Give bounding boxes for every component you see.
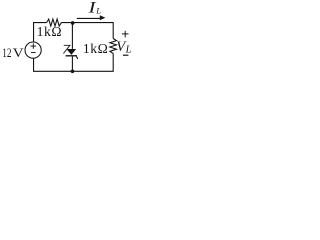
junction node dot top (71, 21, 75, 25)
wire top-left (corner at 34,22.6) (34, 23, 47, 43)
minus sign inside source (31, 52, 36, 54)
svg-text:I: I (87, 0, 96, 17)
plus sign of VL (122, 31, 129, 38)
current arrow IL head (100, 15, 106, 20)
svg-text:1kΩ: 1kΩ (83, 41, 109, 56)
voltage source VS 12V circle (25, 42, 41, 58)
zener diode D1 cathode bar (66, 55, 77, 56)
current arrow IL shaft (77, 17, 102, 19)
plus sign inside source (31, 43, 37, 48)
zener diode D1 (triangle) (67, 49, 77, 55)
wire from top node down to diode (71, 23, 73, 49)
wire from diode to bottom node (71, 57, 73, 72)
svg-text:12: 12 (2, 47, 11, 61)
resistor RL 1kOhm (load, vertical zigzag) (110, 39, 117, 54)
wire right-bottom (34, 54, 114, 72)
svg-text:L: L (125, 45, 132, 56)
wire top to right corner (61, 23, 113, 39)
junction node dot bottom (71, 69, 75, 73)
svg-text:V: V (13, 46, 24, 59)
svg-text:1kΩ: 1kΩ (37, 24, 63, 39)
zener bar right bent wing (77, 57, 78, 59)
minus sign of VL (123, 54, 128, 56)
mark left of diode (7-shaped arrow) (63, 45, 70, 53)
svg-text:L: L (95, 6, 101, 16)
resistor R1 1kOhm (series, horizontal zigzag) (47, 19, 62, 26)
